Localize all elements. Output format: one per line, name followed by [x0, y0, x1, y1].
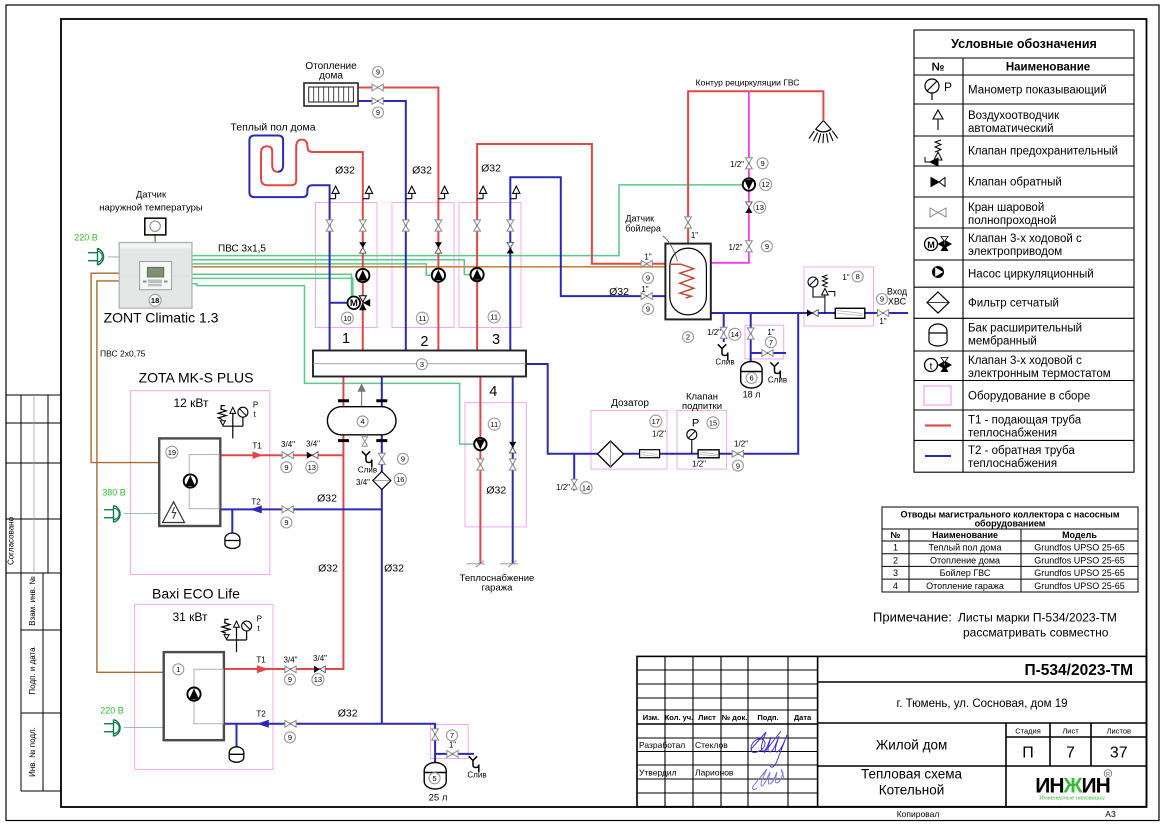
funnel 25L drain: [469, 756, 479, 772]
plug 220V Baxi: [104, 720, 120, 737]
equipment-group box 18L tank valve: [745, 325, 784, 359]
svg-text:3/4": 3/4": [356, 478, 370, 487]
svg-text:10: 10: [343, 314, 351, 323]
svg-text:Наименование: Наименование: [932, 530, 998, 540]
svg-text:№: №: [932, 62, 945, 74]
svg-text:П-534/2023-ТМ: П-534/2023-ТМ: [1025, 662, 1134, 679]
svg-text:бойлера: бойлера: [625, 224, 660, 234]
svg-text:14: 14: [731, 330, 739, 339]
svg-text:Grundfos UPSO 25-65: Grundfos UPSO 25-65: [1034, 568, 1125, 578]
svg-text:Слив: Слив: [715, 358, 734, 367]
svg-text:Слив: Слив: [358, 466, 377, 475]
svg-text:Отопление дома: Отопление дома: [930, 555, 1000, 565]
ZOTA safety group: [218, 406, 243, 439]
ZOTA expansion vessel: [225, 533, 240, 549]
svg-text:M: M: [350, 298, 358, 309]
valve 18L drop 1inch: [747, 328, 754, 339]
svg-text:3: 3: [420, 360, 424, 369]
svg-text:Baxi ECO Life: Baxi ECO Life: [152, 586, 240, 602]
item 10 three-way valve: [341, 312, 353, 324]
item 5 25L tank: [429, 773, 440, 784]
svg-text:220 В: 220 В: [100, 706, 124, 716]
wire green to pump11: [192, 284, 473, 444]
svg-text:Датчик: Датчик: [625, 214, 654, 224]
svg-text:2: 2: [686, 333, 690, 342]
dozator device: [640, 450, 660, 458]
svg-text:4: 4: [893, 581, 898, 591]
pipe T1 floor-heating serpentine: [261, 140, 363, 351]
valve group1 blue: [326, 220, 333, 231]
svg-text:3/4": 3/4": [313, 654, 327, 663]
svg-text:11: 11: [419, 314, 427, 323]
pipe 18L tank drop: [751, 313, 786, 362]
manometer XVS: [808, 277, 825, 297]
equipment-group box 3: [459, 203, 521, 328]
svg-text:Контур рециркуляции ГВС: Контур рециркуляции ГВС: [696, 78, 800, 88]
air vent group3 red: [477, 186, 487, 199]
circled item numbers: [149, 67, 887, 784]
equipment-group box 2: [392, 203, 454, 328]
svg-text:1/2": 1/2": [692, 460, 706, 469]
valve hydro blue drop: [378, 453, 385, 464]
svg-text:1": 1": [767, 328, 774, 337]
svg-text:17: 17: [652, 417, 660, 426]
svg-text:гаража: гаража: [482, 583, 513, 594]
pipe make-up fill stub: [573, 454, 575, 491]
valve boiler T2 1inch: [641, 293, 652, 300]
tank sym: [929, 324, 947, 346]
wire plug380 to ZOTA: [124, 513, 159, 515]
svg-text:Воздухоотводчик: Воздухоотводчик: [968, 110, 1060, 122]
arrow T1 Baxi: [257, 665, 269, 673]
svg-text:автоматический: автоматический: [968, 123, 1054, 135]
svg-text:P: P: [692, 418, 699, 430]
svg-text:9: 9: [288, 675, 292, 684]
arrow T1 ZOTA: [253, 451, 263, 459]
pipe group4 garage supply: [479, 377, 481, 564]
item 9 radiator return valve: [373, 107, 384, 118]
svg-text:T1: T1: [252, 442, 262, 451]
svg-text:Инженерные инновации: Инженерные инновации: [1039, 796, 1105, 802]
svg-text:Тепловая схема: Тепловая схема: [861, 767, 963, 782]
plug 380V: [104, 506, 120, 523]
pump group1: [356, 269, 369, 282]
radiator house heating: [304, 83, 358, 106]
Baxi expansion vessel: [229, 747, 244, 763]
svg-text:Grundfos UPSO 25-65: Grundfos UPSO 25-65: [1034, 581, 1125, 591]
wire green to pump1: [192, 278, 353, 296]
item 9 separator drop valve: [397, 453, 408, 464]
reducer XVS: [835, 308, 865, 318]
item 9 ZOTA T2 valve: [281, 517, 292, 528]
item 19 ZOTA boiler: [166, 446, 178, 458]
item 9 recirc lower valve: [761, 241, 772, 252]
equipment-group box 4: [465, 403, 526, 527]
svg-text:13: 13: [756, 203, 764, 212]
Baxi pump: [187, 688, 200, 701]
svg-text:12 кВт: 12 кВт: [173, 396, 209, 410]
safety valve XVS: [822, 275, 835, 313]
svg-text:380 В: 380 В: [102, 488, 126, 498]
svg-text:Дата: Дата: [794, 713, 812, 722]
check valve Baxi T1: [314, 666, 325, 673]
svg-text:Кол. уч.: Кол. уч.: [665, 713, 694, 722]
item 9 Baxi T2 valve: [284, 732, 295, 743]
svg-text:Ø32: Ø32: [317, 493, 337, 505]
arrow T2 Baxi: [257, 720, 269, 728]
3way thermostat sym: [925, 358, 953, 373]
svg-text:25 л: 25 л: [429, 793, 448, 804]
svg-text:1/2": 1/2": [707, 328, 721, 337]
item 9 ZOTA T1 valve: [281, 462, 292, 473]
wire plug220 to Baxi: [124, 727, 164, 729]
item 9 make-up valve: [732, 460, 743, 471]
valve Baxi T1: [285, 666, 296, 673]
svg-text:1: 1: [342, 331, 350, 347]
svg-text:8: 8: [856, 272, 860, 281]
collector item3: [313, 351, 526, 377]
svg-text:теплоснабжения: теплоснабжения: [968, 458, 1057, 470]
svg-text:9: 9: [646, 274, 650, 283]
svg-text:9: 9: [880, 295, 884, 304]
valve 25L group: [432, 729, 439, 740]
manometer sym: [925, 79, 939, 100]
svg-text:Теплый пол дома: Теплый пол дома: [230, 122, 315, 134]
svg-text:Ø32: Ø32: [335, 165, 355, 177]
arrow T2 ZOTA: [250, 505, 262, 513]
hydro separator air vent: [358, 385, 365, 407]
TITLEBLOCK: [637, 656, 1147, 806]
check valve recirc item13: [745, 202, 752, 213]
svg-text:Стадия: Стадия: [1015, 727, 1041, 736]
svg-text:Лист: Лист: [1062, 727, 1079, 736]
svg-text:Ø32: Ø32: [609, 286, 629, 298]
air vent sym: [933, 110, 943, 130]
svg-text:3/4": 3/4": [281, 440, 295, 449]
svg-text:полнопроходной: полнопроходной: [968, 215, 1056, 227]
svg-text:9: 9: [376, 108, 380, 117]
svg-text:1: 1: [176, 665, 180, 674]
equipment-group box Baxi: [135, 604, 273, 769]
pipe ZOTA vessel drop: [231, 509, 233, 533]
svg-text:Р: Р: [944, 80, 952, 94]
valve ZOTA T2: [282, 506, 293, 513]
svg-text:Оборудование в сборе: Оборудование в сборе: [968, 391, 1090, 403]
item 8 cold water unit: [852, 271, 863, 282]
svg-text:1": 1": [641, 285, 648, 294]
T1 red line sym: [925, 424, 951, 426]
svg-text:П: П: [1022, 745, 1034, 762]
wire orange to boiler sensor: [192, 266, 665, 268]
svg-text:Манометр показывающий: Манометр показывающий: [968, 85, 1107, 97]
svg-text:9: 9: [736, 461, 740, 470]
valve group1 red: [359, 220, 366, 231]
svg-text:Разработал: Разработал: [639, 740, 685, 750]
svg-text:1/2": 1/2": [730, 160, 744, 169]
svg-text:ПВС 3х1,5: ПВС 3х1,5: [218, 244, 266, 255]
svg-text:37: 37: [1110, 745, 1128, 762]
svg-text:5: 5: [433, 774, 437, 783]
svg-text:Grundfos UPSO 25-65: Grundfos UPSO 25-65: [1034, 555, 1125, 565]
svg-text:Ø32: Ø32: [486, 485, 506, 497]
signature 1: [751, 731, 787, 767]
valve Baxi T2: [285, 720, 296, 727]
valve boiler T1 1inch: [641, 260, 652, 267]
svg-text:Лист: Лист: [698, 713, 716, 722]
wire outdoor sensor stem: [154, 235, 156, 243]
svg-text:Кран шаровой: Кран шаровой: [968, 202, 1044, 214]
svg-text:Датчик: Датчик: [136, 190, 167, 201]
svg-text:9: 9: [646, 305, 650, 314]
svg-text:1: 1: [893, 543, 898, 553]
wire green to pump12: [192, 185, 743, 256]
item 7 18L valve group: [765, 337, 776, 348]
check valve cold water: [807, 309, 818, 316]
wire green to pump2: [192, 264, 432, 275]
wire brown to Baxi boiler: [97, 281, 164, 672]
svg-text:18: 18: [151, 296, 159, 305]
svg-text:Слив: Слив: [467, 771, 486, 780]
svg-text:А3: А3: [1105, 809, 1116, 819]
item 14 boiler drain valve: [729, 328, 741, 340]
3way M valve sym: [925, 237, 953, 252]
check valve group2 red: [435, 242, 442, 253]
svg-text:7: 7: [769, 338, 773, 347]
svg-text:Т2 - обратная труба: Т2 - обратная труба: [968, 445, 1075, 457]
ZOTA boiler body item19: [159, 438, 220, 526]
item 13 Baxi check valve: [312, 674, 324, 686]
3-way valve M item10: [330, 296, 371, 310]
svg-text:Листов: Листов: [1107, 727, 1131, 736]
svg-text:P: P: [257, 615, 262, 624]
pipe T1 group3 to boiler coil: [477, 144, 665, 351]
funnel 18L drain: [770, 362, 780, 378]
pipe T2 main riser from boilers: [381, 377, 383, 724]
svg-text:Копировал: Копировал: [897, 809, 940, 819]
svg-text:наружной температуры: наружной температуры: [99, 203, 203, 214]
svg-text:ПВС 2х0,75: ПВС 2х0,75: [100, 349, 146, 359]
pipe DHW recirculation loop top: [688, 91, 823, 243]
svg-text:18 л: 18 л: [743, 390, 761, 400]
svg-text:R: R: [1106, 772, 1110, 778]
assembled equipment sym: [924, 386, 951, 405]
svg-text:Условные обозначения: Условные обозначения: [951, 37, 1097, 51]
svg-text:2: 2: [420, 334, 428, 350]
18L expansion tank item6: [741, 362, 762, 389]
item 13 recirc check valve: [754, 201, 766, 213]
item 16 filter: [394, 473, 406, 485]
item 2 DHW boiler: [683, 332, 694, 343]
filter item16: [373, 472, 391, 490]
svg-text:1": 1": [644, 253, 651, 262]
Baxi boiler body item1: [164, 652, 224, 740]
equipment-group box Dozator: [591, 410, 667, 469]
item 4 hydraulic separator: [357, 416, 368, 427]
svg-text:ZOTA MK-S PLUS: ZOTA MK-S PLUS: [139, 370, 254, 386]
svg-text:12: 12: [761, 180, 769, 189]
svg-text:9: 9: [284, 518, 288, 527]
svg-text:19: 19: [168, 448, 176, 457]
wire green to 3-way valve M: [192, 274, 352, 296]
svg-text:Бойлер ГВС: Бойлер ГВС: [940, 568, 991, 578]
svg-text:Котельной: Котельной: [879, 783, 945, 798]
item 9 radiator supply valve: [373, 67, 384, 78]
item 11 pump group3: [488, 311, 500, 323]
boiler sensor leader: [663, 236, 678, 261]
svg-text:Подп. и дата: Подп. и дата: [28, 647, 37, 695]
svg-text:Ø32: Ø32: [481, 163, 501, 175]
svg-text:13: 13: [314, 675, 322, 684]
item 9 Baxi T1 valve: [284, 674, 295, 685]
svg-text:9: 9: [765, 242, 769, 251]
svg-text:13: 13: [308, 463, 316, 472]
T2 blue line sym: [925, 455, 951, 457]
pump group3: [471, 268, 484, 281]
svg-text:№ док.: № док.: [722, 713, 748, 722]
svg-text:9: 9: [401, 455, 405, 464]
item 18 ZONT controller: [149, 294, 161, 306]
valve cold water inlet 1inch: [877, 310, 888, 317]
pipe Baxi vessel drop: [236, 724, 238, 747]
valve recirc lower half-inch: [746, 241, 753, 252]
svg-text:оборудованием: оборудованием: [975, 519, 1046, 529]
Baxi safety group: [222, 619, 247, 652]
air vent group3 blue: [510, 186, 520, 199]
pump group4 item11: [474, 438, 486, 450]
pipe make-up line from collector: [526, 313, 798, 454]
check valve group4 blue: [509, 442, 516, 453]
pipe DHW recirculation riser: [711, 91, 749, 263]
svg-text:9: 9: [761, 159, 765, 168]
svg-text:Ø32: Ø32: [412, 165, 432, 177]
item 9 boiler T2 valve: [643, 304, 654, 315]
valve 18L drain: [762, 350, 773, 357]
OTVTABLE: [873, 507, 1138, 640]
svg-text:t: t: [930, 362, 933, 373]
svg-text:подпитки: подпитки: [682, 401, 722, 412]
svg-text:Ø32: Ø32: [318, 563, 338, 575]
valve 25L drain 1inch: [447, 751, 458, 758]
pipe T1 main riser to boilers: [224, 377, 344, 670]
outdoor temperature sensor: [145, 218, 166, 235]
equipment-group box 1: [316, 203, 378, 328]
check valve group3 blue: [507, 242, 514, 253]
svg-text:4: 4: [489, 384, 497, 400]
valve make-up half-inch item9: [732, 450, 743, 457]
valve group2 blue: [402, 220, 409, 231]
hydro separator drain valve: [362, 435, 368, 447]
svg-text:7: 7: [450, 731, 454, 740]
25L expansion tank item5: [424, 763, 446, 790]
svg-text:1": 1": [691, 231, 698, 240]
svg-text:г. Тюмень, ул. Сосновая, дом 1: г. Тюмень, ул. Сосновая, дом 19: [896, 698, 1067, 710]
svg-text:220 В: 220 В: [74, 233, 98, 243]
svg-text:Клапан 3-х ходовой с: Клапан 3-х ходовой с: [968, 355, 1082, 367]
svg-text:теплоснабжения: теплоснабжения: [968, 428, 1057, 440]
svg-text:9: 9: [284, 463, 288, 472]
pump group2: [432, 269, 445, 282]
LEFTMARGIN: [6, 395, 61, 791]
equipment-group box make-up valve: [677, 410, 727, 469]
manometer make-up item15: [687, 430, 697, 454]
svg-text:1": 1": [449, 741, 456, 750]
svg-text:1/2": 1/2": [652, 430, 666, 439]
filter dozator: [598, 441, 624, 467]
hydro separator drain funnel: [362, 451, 372, 467]
svg-text:Дозатор: Дозатор: [611, 398, 649, 409]
funnel boiler drain: [718, 344, 728, 360]
svg-text:№: №: [890, 530, 900, 540]
svg-text:электронным термостатом: электронным термостатом: [968, 368, 1111, 380]
INJIN logo: [1035, 770, 1112, 802]
pipe T2 group3 from boiler coil: [510, 177, 665, 350]
svg-text:Наименование: Наименование: [1006, 62, 1090, 74]
svg-text:Инв. № подл.: Инв. № подл.: [28, 727, 37, 777]
check valve sym: [931, 178, 945, 187]
svg-text:Модель: Модель: [1062, 530, 1097, 540]
svg-text:мембранный: мембранный: [968, 336, 1037, 348]
equipment-group box ZOTA: [130, 391, 269, 575]
labels and circled numbers: [99, 61, 908, 804]
svg-text:Изм.: Изм.: [643, 713, 660, 722]
pump sym: [932, 266, 944, 278]
svg-text:Листы марки П-534/2023-ТМ: Листы марки П-534/2023-ТМ: [958, 611, 1117, 625]
ZONT controller item18: [119, 243, 192, 309]
LEGEND: [914, 30, 1134, 472]
svg-text:рассматривать совместно: рассматривать совместно: [963, 626, 1109, 640]
pump recirc item12: [743, 178, 755, 190]
pipe T2 radiator return: [358, 101, 406, 351]
svg-text:Фильтр сетчатый: Фильтр сетчатый: [968, 298, 1059, 310]
item 7 25L valve group: [447, 730, 458, 741]
svg-text:16: 16: [396, 475, 404, 484]
plug 220V top: [88, 248, 104, 265]
item 12 recirc pump: [760, 179, 772, 191]
item 11 pump group2: [416, 312, 428, 324]
item 3 collector: [416, 359, 427, 370]
pipe T1 ZOTA branch: [220, 454, 343, 456]
valve group4 red: [477, 459, 484, 470]
air vent group1 red: [363, 186, 373, 199]
svg-text:Ларионов: Ларионов: [695, 768, 734, 778]
DHW boiler tank item2: [665, 244, 710, 320]
wire green to pump3: [192, 260, 470, 275]
equipment-group box 25L tank valve: [430, 725, 468, 759]
wire brown to ZOTA boiler: [91, 273, 159, 462]
svg-text:3: 3: [492, 332, 500, 348]
svg-text:P: P: [253, 401, 258, 410]
svg-text:11: 11: [490, 420, 498, 429]
valve recirc upper half-inch: [746, 158, 753, 169]
svg-text:3: 3: [893, 568, 898, 578]
air vent group2 blue: [406, 186, 416, 199]
signature 2: [753, 769, 784, 789]
svg-text:Бак расширительный: Бак расширительный: [968, 323, 1082, 335]
svg-text:Grundfos UPSO 25-65: Grundfos UPSO 25-65: [1034, 543, 1125, 553]
valve boiler drain item14: [720, 327, 727, 338]
item 6 18L tank: [746, 373, 757, 384]
svg-text:Клапан предохранительный: Клапан предохранительный: [968, 146, 1118, 158]
item 11 pump group4: [488, 418, 500, 430]
hydraulic separator item4: [327, 401, 396, 441]
svg-text:Стеклов: Стеклов: [695, 740, 728, 750]
svg-text:T2: T2: [256, 710, 266, 719]
wire plug220 to ZONT: [108, 256, 119, 258]
check valve ZOTA T1: [307, 452, 318, 459]
item 9 recirc upper valve: [757, 158, 768, 169]
pipe cold water main: [711, 312, 908, 314]
item 9 boiler T1 valve: [643, 273, 654, 284]
